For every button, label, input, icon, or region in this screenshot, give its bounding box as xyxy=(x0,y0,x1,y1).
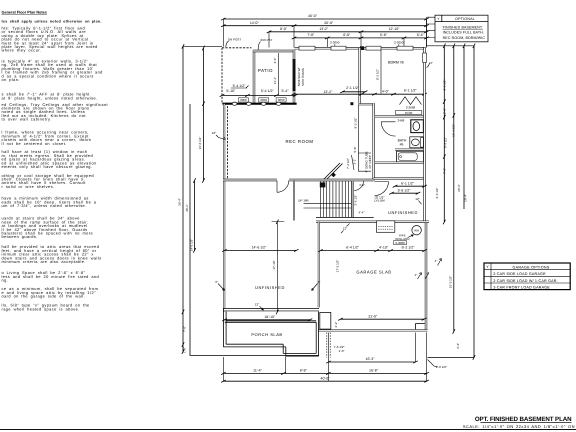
beam note (3) xyxy=(374,195,385,202)
svg-text:12": 12" xyxy=(255,302,259,306)
svg-text:tes shall apply unless noted o: tes shall apply unless noted otherwise o… xyxy=(2,19,102,23)
svg-text:6'-0": 6'-0" xyxy=(343,33,351,37)
outer walk line xyxy=(190,312,319,355)
svg-text:um of 7-3/4", unless noted oth: um of 7-3/4", unless noted otherwise. xyxy=(2,203,87,208)
svg-text:14'-6 1/2": 14'-6 1/2" xyxy=(252,246,268,250)
rec room bottom wall right / stair top wall xyxy=(289,179,374,181)
svg-text:3'-6 1/2": 3'-6 1/2" xyxy=(354,195,358,206)
svg-text:16": 16" xyxy=(212,131,216,135)
svg-text:15/30: 15/30 xyxy=(405,111,413,115)
4 inch leader right wall xyxy=(427,63,431,68)
porch outline xyxy=(223,308,318,356)
svg-text:DN POST: DN POST xyxy=(228,37,242,41)
svg-text:UNFINISHED: UNFINISHED xyxy=(255,285,285,290)
svg-text:16'-3 1/2": 16'-3 1/2" xyxy=(449,276,453,289)
slope arrows garage xyxy=(415,273,429,279)
svg-text:2'-2": 2'-2" xyxy=(334,322,338,328)
svg-text:8'-8": 8'-8" xyxy=(300,369,308,373)
svg-text:REC ROOM: REC ROOM xyxy=(285,139,313,144)
garage door dim 21'-0" xyxy=(338,314,426,320)
svg-text:12'-10": 12'-10" xyxy=(389,27,401,31)
door tag 2468 xyxy=(398,119,405,123)
right dim verticals xyxy=(427,46,475,358)
window symbols in rec room top wall xyxy=(232,102,281,105)
svg-text:3050: 3050 xyxy=(240,98,247,102)
svg-text:11'-1": 11'-1" xyxy=(273,77,277,84)
svg-text:where they occur.: where they occur. xyxy=(2,48,42,53)
svg-text:5'-4 1/2": 5'-4 1/2" xyxy=(261,89,275,93)
stair break mark xyxy=(322,163,343,182)
dim extension lines top xyxy=(223,19,426,48)
svg-text:INCLUDES FULL BATH,: INCLUDES FULL BATH, xyxy=(443,31,484,35)
svg-text:ng.: ng. xyxy=(2,278,9,283)
dim 5'-8 1/2" xyxy=(389,188,420,194)
svg-text:18'-10": 18'-10" xyxy=(264,315,276,319)
landing west wall xyxy=(352,181,354,218)
2'-2" tag xyxy=(334,322,338,328)
rec room top wall xyxy=(223,103,297,105)
svg-text:46'-0": 46'-0" xyxy=(308,14,318,18)
svg-text:17'-3 1/2": 17'-3 1/2" xyxy=(336,260,340,273)
svg-text:7'-6 1/2": 7'-6 1/2" xyxy=(334,345,345,349)
bottom border line xyxy=(0,429,576,431)
optional box xyxy=(435,15,488,42)
BDRM #5 label xyxy=(388,61,404,65)
notes text column xyxy=(2,11,109,312)
garage dim 17'-3 1/2" xyxy=(336,260,340,273)
svg-text:40'-0": 40'-0" xyxy=(321,376,331,380)
svg-text:between guards.: between guards. xyxy=(2,234,38,239)
svg-text:1'-0": 1'-0" xyxy=(339,349,345,353)
svg-text:6'-1 1/2": 6'-1 1/2" xyxy=(401,181,415,185)
landing door arc xyxy=(354,181,364,191)
svg-text:4": 4" xyxy=(435,259,438,263)
svg-text:45'-1": 45'-1" xyxy=(185,204,189,212)
svg-text:2'-6 1/2": 2'-6 1/2" xyxy=(436,365,447,369)
right dim ticks xyxy=(443,44,475,360)
rec room interior dim 14'-6 1/2" xyxy=(222,246,298,252)
garage door left jamb xyxy=(320,313,331,330)
UNFINISHED label right xyxy=(388,210,418,215)
svg-text:3": 3" xyxy=(215,280,218,284)
svg-text:2-3080: 2-3080 xyxy=(395,241,405,245)
svg-text:2-3050: 2-3050 xyxy=(394,41,404,45)
12" leader bottom xyxy=(255,302,264,310)
dim 16'-3" xyxy=(326,357,418,363)
svg-text:4'-10": 4'-10" xyxy=(379,246,389,250)
dim row 7'-0" / 6'-0" / 6'-8" / 6'-4" xyxy=(292,33,429,39)
svg-text:7'-0": 7'-0" xyxy=(307,33,315,37)
PORCH SLAB label xyxy=(251,332,282,337)
svg-text:13'-2": 13'-2" xyxy=(319,27,329,31)
stair newel post xyxy=(320,182,326,187)
dim 18'-10" xyxy=(222,315,312,321)
closet shelf 15/30 xyxy=(396,111,422,115)
svg-text:2468: 2468 xyxy=(398,119,405,123)
svg-text:5'-4 1/2": 5'-4 1/2" xyxy=(233,84,247,88)
dim row 11'-4" 8'-8" 16'-8" xyxy=(221,369,429,375)
svg-text:LVL BM: LVL BM xyxy=(374,199,385,203)
door tag 3068 xyxy=(394,241,407,245)
svg-text:5'-8 1/2": 5'-8 1/2" xyxy=(398,188,412,192)
svg-text:GARAGE OPTIONS: GARAGE OPTIONS xyxy=(513,265,550,269)
svg-text:26'-0": 26'-0" xyxy=(324,21,334,25)
UNFINISHED label lower xyxy=(255,285,285,290)
stairs bottom line xyxy=(316,217,374,219)
landing labels xyxy=(354,183,365,215)
svg-text:on plan.: on plan. xyxy=(2,77,20,82)
svg-text:1'-6": 1'-6" xyxy=(183,347,187,353)
svg-text:r solid or wire shelves.: r solid or wire shelves. xyxy=(2,184,55,189)
PIPE BOLLARD note xyxy=(395,234,413,241)
bathtub xyxy=(397,151,424,162)
left dim line A xyxy=(177,44,184,354)
svg-text:4'-0": 4'-0" xyxy=(359,183,365,187)
right wall upper xyxy=(423,48,425,223)
svg-text:9'-3 1/2": 9'-3 1/2" xyxy=(353,118,357,129)
svg-text:oard on the garage side of the: oard on the garage side of the wall. xyxy=(2,294,86,299)
svg-text:WH: WH xyxy=(414,228,419,232)
stair treads xyxy=(321,181,352,217)
svg-text:5'-4": 5'-4" xyxy=(282,89,290,93)
svg-text:16'-8": 16'-8" xyxy=(369,369,379,373)
svg-text:4": 4" xyxy=(430,61,433,65)
closet bifold doors xyxy=(400,97,422,105)
2'-6 1/2" leader xyxy=(428,360,447,369)
svg-text:7'-6": 7'-6" xyxy=(443,168,447,174)
svg-text:2'-8": 2'-8" xyxy=(443,108,447,114)
hall south wall xyxy=(374,177,425,179)
svg-text:2-CAR SIDE LOAD GARAGE: 2-CAR SIDE LOAD GARAGE xyxy=(493,272,546,276)
svg-text:OPTIONAL: OPTIONAL xyxy=(455,17,475,21)
patio interior dim 3'-6" / 11'-1" xyxy=(273,53,278,95)
16" leader note xyxy=(212,131,226,140)
dim 6'-1 1/2" below hall xyxy=(393,181,427,187)
wall jog cap xyxy=(359,103,375,105)
garage bottom wall xyxy=(318,329,428,331)
svg-text:3-CAR FRONT LOAD GARAGE: 3-CAR FRONT LOAD GARAGE xyxy=(493,286,550,290)
12" leader right xyxy=(415,197,421,204)
notes intro line xyxy=(2,19,102,23)
svg-text:6X6 PST: 6X6 PST xyxy=(260,38,272,42)
svg-text:FINISHED BASEMENT:: FINISHED BASEMENT: xyxy=(443,26,483,30)
dim row under bdrm 13'-2" 4'-0" 6'-1 1/2" xyxy=(291,89,427,96)
SGD rotated note xyxy=(297,68,305,87)
bottom extension lines xyxy=(223,333,426,382)
garage top wall xyxy=(316,221,429,223)
svg-text:#6: #6 xyxy=(400,143,404,147)
svg-text:minimum criteria are also acce: minimum criteria are also acceptable. xyxy=(2,259,86,264)
svg-text:6'-4": 6'-4" xyxy=(456,343,460,349)
svg-text:less and shall be 20 minute fi: less and shall be 20 minute fire rated a… xyxy=(2,274,100,279)
right dim labels xyxy=(430,61,467,349)
stair west wall xyxy=(293,180,295,221)
svg-text:ll not be centered on closet.: ll not be centered on closet. xyxy=(2,141,67,146)
svg-text:12": 12" xyxy=(415,197,419,201)
closet south wall xyxy=(375,115,425,117)
svg-text:16'-4": 16'-4" xyxy=(464,194,468,202)
svg-text:rage when heated space is abov: rage when heated space is above. xyxy=(2,306,80,311)
garage door right jamb xyxy=(416,324,425,330)
post block at wall junction xyxy=(360,46,364,50)
svg-text:6'-2 1/2": 6'-2 1/2" xyxy=(402,246,416,250)
7'-4 1/2" dim xyxy=(346,155,354,170)
svg-text:REC ROOM, BDRM/WIC: REC ROOM, BDRM/WIC xyxy=(443,36,486,40)
svg-text:GARAGE SLAB: GARAGE SLAB xyxy=(356,270,391,275)
svg-text:2-3050: 2-3050 xyxy=(330,41,340,45)
svg-text:3050: 3050 xyxy=(278,98,285,102)
svg-text:16'-6 1/2": 16'-6 1/2" xyxy=(198,137,202,150)
svg-text:3050: 3050 xyxy=(260,98,267,102)
corner leader right xyxy=(312,280,321,291)
svg-text:2-CAR SIDE LOAD W/ 1-CAR GAR.: 2-CAR SIDE LOAD W/ 1-CAR GAR. xyxy=(493,279,558,283)
svg-text:4": 4" xyxy=(415,273,418,277)
dim row 46'-0" top xyxy=(221,14,429,20)
svg-text:7'-6": 7'-6" xyxy=(183,326,187,332)
svg-text:OPT. FINISHED BASEMENT PLAN: OPT. FINISHED BASEMENT PLAN xyxy=(475,416,572,423)
svg-text:UP 16R: UP 16R xyxy=(298,198,309,202)
svg-text:14'-0": 14'-0" xyxy=(250,21,260,25)
sono tube note xyxy=(364,151,372,172)
bath mid wall xyxy=(395,149,425,151)
svg-text:36'-4": 36'-4" xyxy=(177,198,181,206)
dim row 14'-0" / 26'-0" xyxy=(221,21,429,27)
left dim line D 16'-6 1/2" xyxy=(198,46,205,183)
interior dim 17'-10" vertical xyxy=(272,220,285,315)
dim 2'-1 1/2" xyxy=(340,86,367,93)
patio top wall xyxy=(253,50,295,52)
svg-text:ts over wall cabinetry.: ts over wall cabinetry. xyxy=(2,117,52,122)
svg-text:at 9' plate height, unless not: at 9' plate height, unless noted otherwi… xyxy=(2,95,98,100)
svg-text:2'-1 1/2": 2'-1 1/2" xyxy=(346,86,360,90)
UP 16R label xyxy=(298,198,309,202)
svg-text:5'-10": 5'-10" xyxy=(226,89,236,93)
dim row 8'-0" / 13'-2" / 12'-10" xyxy=(267,27,429,33)
svg-text:3'-6": 3'-6" xyxy=(273,58,277,64)
svg-text:4'-0": 4'-0" xyxy=(382,90,390,94)
slope arrow right xyxy=(435,259,442,266)
bdrm interior dim 9'-3 1/2" xyxy=(376,50,381,94)
svg-text:21'-0": 21'-0" xyxy=(368,314,378,318)
svg-text:6'-4 1/2": 6'-4 1/2" xyxy=(346,246,360,250)
BDRM5 west wall xyxy=(359,48,361,104)
svg-text:General Floor Plan Notes: General Floor Plan Notes xyxy=(2,11,47,15)
svg-text:PATIO: PATIO xyxy=(258,68,273,73)
svg-text:14'-6 1/2": 14'-6 1/2" xyxy=(189,239,193,252)
corner leader left xyxy=(215,280,224,291)
scale note xyxy=(463,424,575,429)
window tag 2-3050 right xyxy=(394,41,404,47)
PATIO room label xyxy=(258,68,273,73)
garage top dim row xyxy=(318,246,427,252)
windows in top wall xyxy=(299,46,413,50)
svg-text:6'-4": 6'-4" xyxy=(417,33,425,37)
svg-text:8'-0": 8'-0" xyxy=(280,27,288,31)
patio bottom dim labels xyxy=(226,84,289,93)
rec room bottom wall left xyxy=(223,179,277,181)
garage left wall xyxy=(318,222,320,308)
patio bottom dim line xyxy=(220,94,298,96)
REC ROOM label xyxy=(285,139,313,144)
svg-text:4'-4": 4'-4" xyxy=(359,210,365,214)
svg-text:14'-4 1/2": 14'-4 1/2" xyxy=(452,124,456,137)
svg-text:6'-4 1/2": 6'-4 1/2" xyxy=(443,137,447,148)
garage right wall xyxy=(425,222,427,331)
svg-text:3": 3" xyxy=(318,280,321,284)
unfinished hall door arc xyxy=(375,182,389,196)
dashed finish line rec room xyxy=(227,106,229,179)
porch left dims 7'-6" 1'-6" xyxy=(183,326,187,353)
svg-text:36'-6": 36'-6" xyxy=(457,184,461,192)
dim row 40'-0" xyxy=(221,376,429,382)
svg-text:SCALE: 1/4"=1'-0" ON 22x34 AND: SCALE: 1/4"=1'-0" ON 22x34 AND 1/8"=1'-0… xyxy=(463,424,575,429)
sink vanity xyxy=(410,137,424,148)
svg-text:BDRM #5: BDRM #5 xyxy=(388,61,404,65)
rec room door arc xyxy=(277,181,289,193)
svg-text:12": 12" xyxy=(343,226,347,230)
svg-text:2-2668: 2-2668 xyxy=(406,106,416,110)
column dot xyxy=(350,102,353,105)
main top wall xyxy=(295,47,426,49)
hall west wall xyxy=(373,104,375,181)
sliding glass door dark bar xyxy=(293,59,296,91)
svg-text:6'-1 1/2": 6'-1 1/2" xyxy=(404,89,418,93)
svg-text:UNFINISHED: UNFINISHED xyxy=(388,210,418,215)
notes paragraphs xyxy=(2,25,109,311)
window well xyxy=(377,221,395,233)
toilet xyxy=(411,120,424,133)
left dim line C 14'-6 1/2" xyxy=(189,178,195,253)
6X6 POST label xyxy=(258,38,273,50)
notes header "General Floor Plan Notes" xyxy=(2,11,47,15)
column mark xyxy=(331,172,336,177)
patio dashed open edges xyxy=(222,48,252,104)
tub south wall xyxy=(375,162,425,164)
svg-text:7'-4 1/2": 7'-4 1/2" xyxy=(346,158,350,169)
svg-text:ements only shall have obscure: ements only shall have obscure glazing. xyxy=(2,164,93,169)
porch step dims xyxy=(327,333,345,358)
title OPT. FINISHED BASEMENT PLAN xyxy=(475,416,572,423)
svg-text:PORCH SLAB: PORCH SLAB xyxy=(251,332,282,337)
svg-text:36" DEEP: 36" DEEP xyxy=(368,155,372,168)
water heater WH xyxy=(412,226,421,235)
left top connector xyxy=(183,45,222,47)
stair rail lines xyxy=(304,203,352,208)
window tags 3050 below wall xyxy=(238,98,286,102)
sono tube dim line xyxy=(352,105,371,172)
closet tag 2-2668 xyxy=(406,106,416,110)
patio east wall xyxy=(293,50,295,105)
svg-text:11'-4": 11'-4" xyxy=(253,369,262,373)
window tag 2-3050 left xyxy=(330,41,340,47)
optional box connectors xyxy=(427,17,436,47)
patio west wall xyxy=(253,51,255,105)
svg-text:13'-2": 13'-2" xyxy=(323,90,333,94)
svg-text:5070 TRANS: 5070 TRANS xyxy=(301,68,305,86)
bottom right line xyxy=(428,357,475,359)
svg-text:5'-8": 5'-8" xyxy=(353,147,357,153)
BATH #6 label xyxy=(398,138,407,146)
bath door arc xyxy=(381,122,395,136)
garage options table xyxy=(484,263,570,290)
svg-text:17'-10": 17'-10" xyxy=(272,260,276,269)
svg-text:6'-3 1/2": 6'-3 1/2" xyxy=(435,188,439,199)
svg-text:9'-3 1/2": 9'-3 1/2" xyxy=(443,80,447,91)
unfinished bottom wall xyxy=(223,308,319,311)
DN POST label xyxy=(226,37,242,47)
svg-text:6'-8": 6'-8" xyxy=(380,33,388,37)
svg-text:9'-3 1/2": 9'-3 1/2" xyxy=(376,69,380,80)
left dim line B xyxy=(185,104,190,312)
12" leader garage xyxy=(341,223,350,233)
left wall of house xyxy=(223,104,225,312)
GARAGE SLAB label xyxy=(356,270,391,275)
window in right wall xyxy=(423,53,427,63)
svg-text:16'-3": 16'-3" xyxy=(366,357,376,361)
